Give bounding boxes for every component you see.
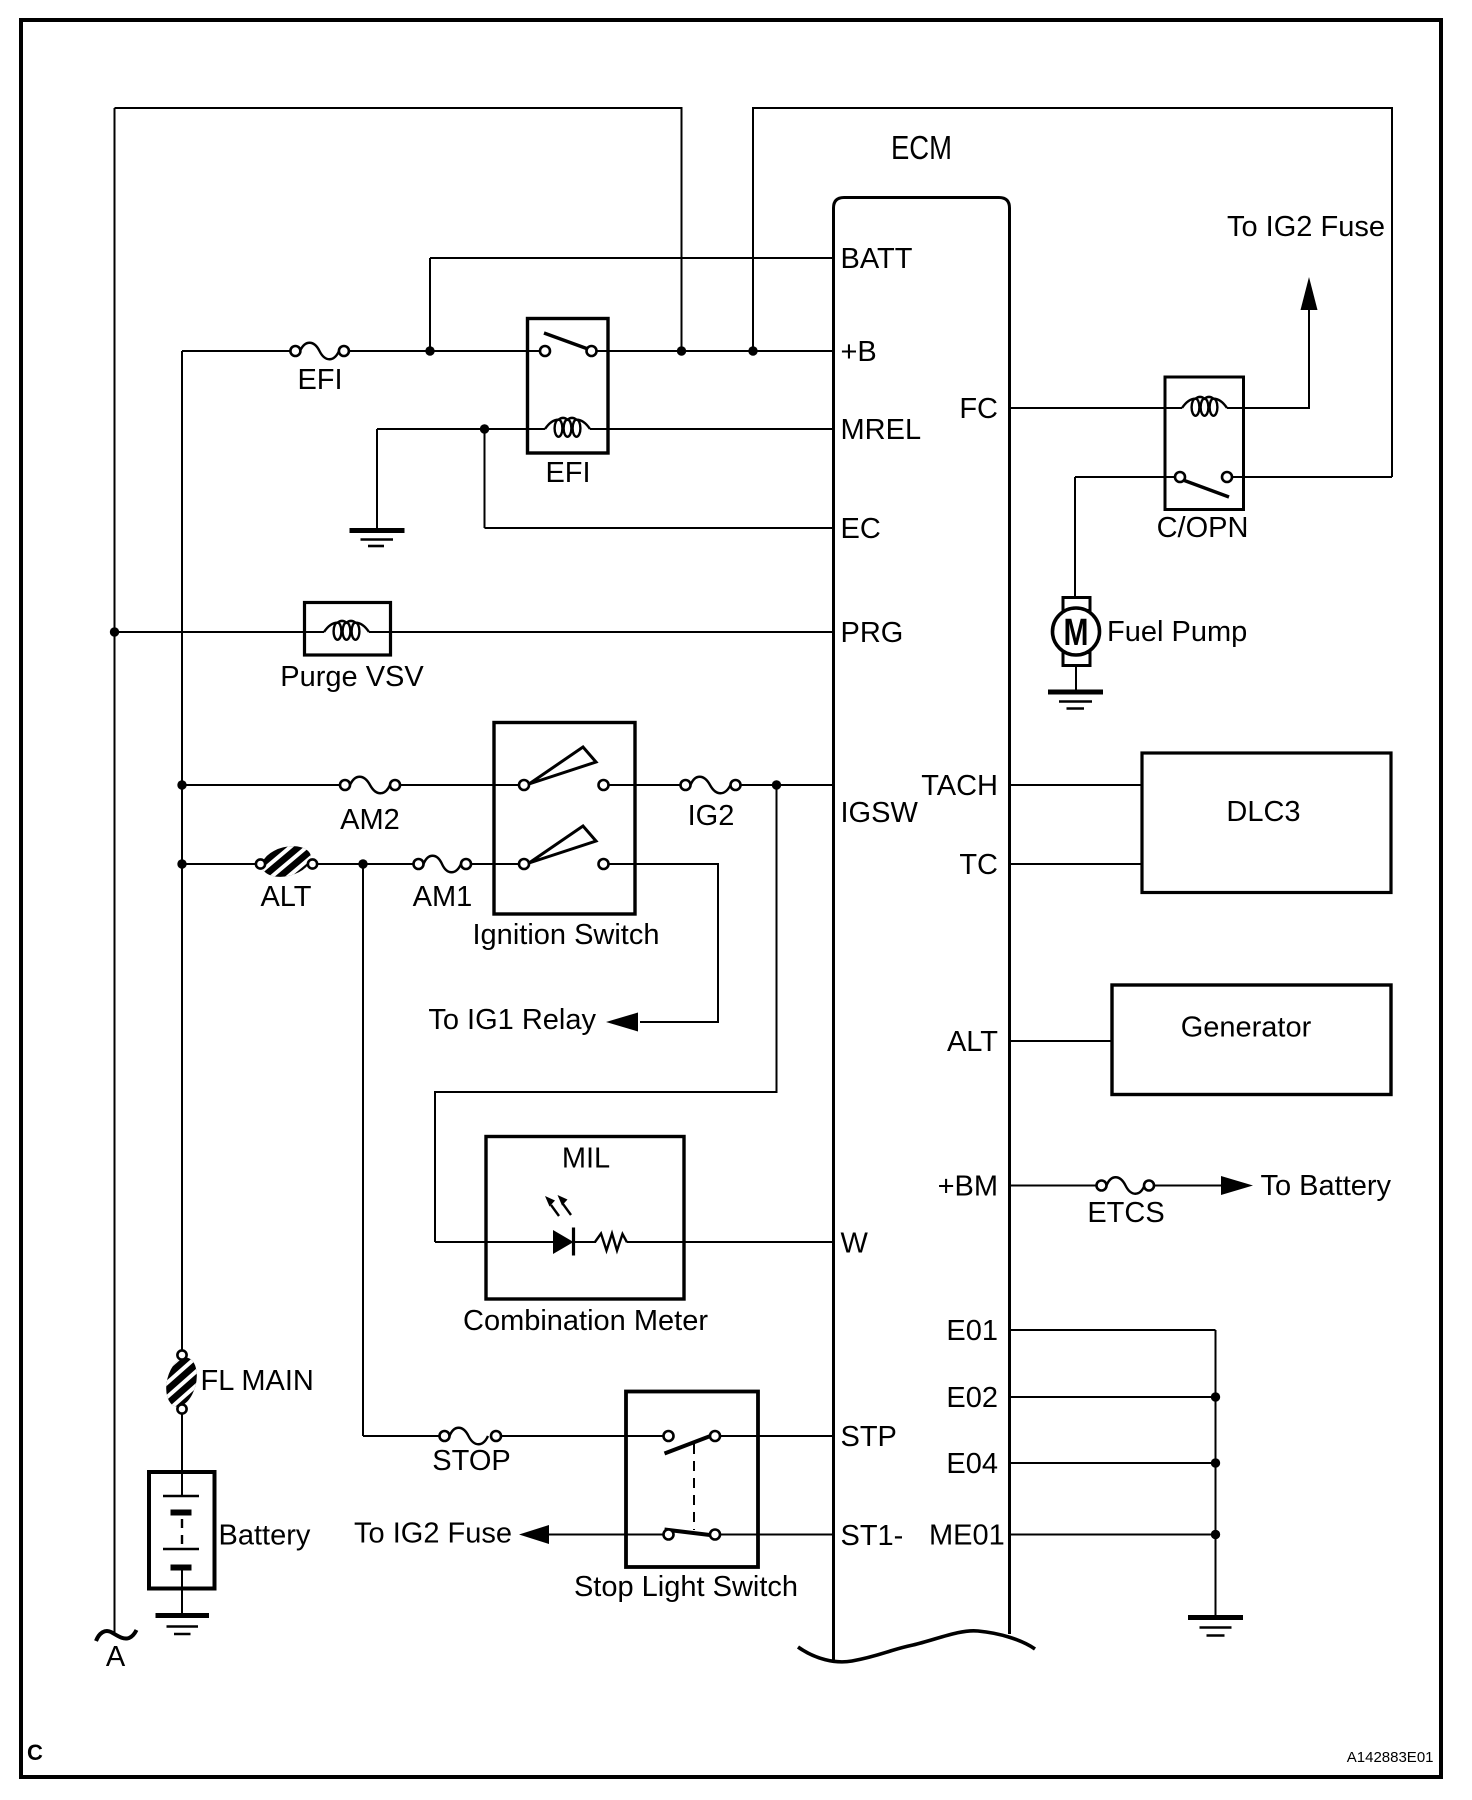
svg-text:Purge VSV: Purge VSV bbox=[280, 661, 424, 693]
svg-text:C/OPN: C/OPN bbox=[1157, 512, 1249, 544]
svg-text:To Battery: To Battery bbox=[1261, 1170, 1392, 1202]
svg-text:ALT: ALT bbox=[260, 881, 311, 913]
svg-text:Fuel Pump: Fuel Pump bbox=[1107, 616, 1247, 648]
svg-text:Stop Light Switch: Stop Light Switch bbox=[574, 1571, 798, 1603]
svg-text:Combination Meter: Combination Meter bbox=[463, 1305, 708, 1337]
svg-text:IG2: IG2 bbox=[688, 800, 735, 832]
svg-text:EFI: EFI bbox=[297, 364, 342, 396]
svg-text:STOP: STOP bbox=[432, 1445, 510, 1477]
svg-text:+B: +B bbox=[841, 336, 877, 368]
svg-text:ME01: ME01 bbox=[929, 1520, 1005, 1552]
svg-text:AM2: AM2 bbox=[340, 804, 400, 836]
svg-text:DLC3: DLC3 bbox=[1226, 796, 1300, 828]
svg-text:MREL: MREL bbox=[841, 414, 922, 446]
svg-text:PRG: PRG bbox=[841, 617, 904, 649]
svg-text:+BM: +BM bbox=[938, 1171, 998, 1203]
svg-text:To IG2 Fuse: To IG2 Fuse bbox=[354, 1518, 512, 1550]
svg-text:FL MAIN: FL MAIN bbox=[201, 1365, 314, 1397]
svg-text:M: M bbox=[1064, 612, 1089, 654]
svg-text:To IG2 Fuse: To IG2 Fuse bbox=[1227, 211, 1385, 243]
svg-text:A: A bbox=[106, 1641, 126, 1673]
svg-text:ETCS: ETCS bbox=[1087, 1197, 1164, 1229]
svg-text:TC: TC bbox=[959, 849, 998, 881]
svg-text:E01: E01 bbox=[946, 1315, 998, 1347]
svg-text:TACH: TACH bbox=[921, 770, 998, 802]
svg-text:ST1-: ST1- bbox=[841, 1520, 904, 1552]
svg-text:Generator: Generator bbox=[1181, 1012, 1312, 1044]
svg-text:EC: EC bbox=[841, 513, 881, 545]
svg-text:To IG1 Relay: To IG1 Relay bbox=[428, 1004, 596, 1036]
svg-text:BATT: BATT bbox=[841, 243, 913, 275]
svg-text:STP: STP bbox=[841, 1421, 897, 1453]
svg-text:AM1: AM1 bbox=[413, 881, 473, 913]
svg-text:MIL: MIL bbox=[562, 1143, 610, 1175]
svg-text:E04: E04 bbox=[946, 1448, 998, 1480]
svg-text:Battery: Battery bbox=[219, 1520, 311, 1552]
svg-text:IGSW: IGSW bbox=[841, 797, 919, 829]
svg-text:Ignition Switch: Ignition Switch bbox=[473, 919, 660, 951]
svg-text:E02: E02 bbox=[946, 1382, 998, 1414]
svg-text:ECM: ECM bbox=[891, 129, 952, 166]
svg-text:C: C bbox=[27, 1740, 43, 1765]
svg-text:FC: FC bbox=[959, 393, 998, 425]
svg-text:W: W bbox=[841, 1228, 869, 1260]
svg-text:A142883E01: A142883E01 bbox=[1347, 1749, 1434, 1766]
svg-text:ALT: ALT bbox=[947, 1026, 998, 1058]
svg-text:EFI: EFI bbox=[545, 457, 590, 489]
